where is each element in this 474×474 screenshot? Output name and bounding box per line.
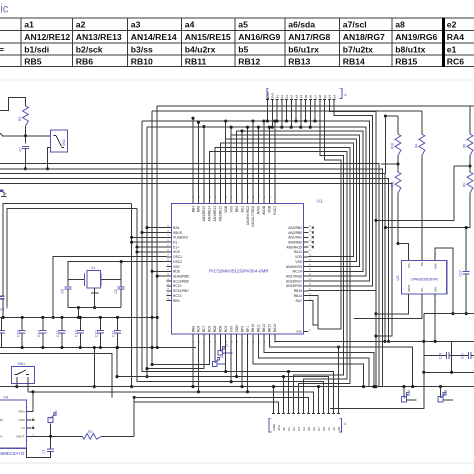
svg-text:b4/u2rx: b4/u2rx bbox=[185, 44, 216, 54]
svg-text:b6/u1rx: b6/u1rx bbox=[288, 44, 319, 54]
wire bottom pin drop 0 bbox=[224, 339, 227, 373]
wire top pin riser r6 bbox=[273, 119, 276, 198]
svg-text:b2: b2 bbox=[292, 427, 296, 431]
capacitor C6 bbox=[61, 287, 72, 308]
svg-text:a5: a5 bbox=[304, 95, 308, 99]
wire bottom pin drop RC6 bbox=[197, 339, 200, 393]
U1 left pin VDD bbox=[166, 250, 180, 254]
wire bus tap riser a bbox=[224, 119, 227, 139]
resistor R10 bbox=[391, 116, 401, 156]
wire OSC2 line and crystal frame top bbox=[68, 262, 166, 286]
wire top pin riser r3 bbox=[257, 126, 260, 199]
svg-text:OSC1: OSC1 bbox=[173, 255, 182, 259]
svg-text:VSS: VSS bbox=[295, 260, 302, 264]
wire bottom fan i14 bbox=[269, 339, 414, 388]
svg-text:U3: U3 bbox=[396, 276, 400, 281]
svg-text:AN17/RG8: AN17/RG8 bbox=[286, 275, 302, 279]
U1 right pin RA7 bbox=[296, 298, 313, 302]
wire bus left A3 bbox=[0, 174, 386, 343]
table lower separator line bbox=[0, 79, 474, 81]
svg-text:b7: b7 bbox=[317, 427, 321, 431]
svg-text:RA7: RA7 bbox=[296, 299, 303, 303]
svg-text:a8: a8 bbox=[337, 427, 341, 431]
svg-text:PD: PD bbox=[420, 262, 424, 266]
U1 top pin AN4/RE14 bbox=[208, 195, 212, 221]
svg-text:RB12: RB12 bbox=[238, 57, 260, 67]
U1 bottom pin RF0 bbox=[240, 326, 244, 343]
wire right lower pins hook 2 bbox=[309, 301, 319, 326]
wire U4 VIN+ to SW1 bbox=[31, 390, 34, 411]
svg-text:U1: U1 bbox=[317, 199, 323, 204]
svg-text:VSS: VSS bbox=[229, 205, 233, 212]
capacitor C edge bbox=[0, 317, 5, 347]
wire through line 11 bbox=[318, 103, 341, 329]
capacitor C1 bbox=[27, 436, 54, 457]
svg-text:RA4: RA4 bbox=[173, 226, 180, 230]
svg-text:e1: e1 bbox=[327, 427, 331, 431]
svg-text:VOUT-: VOUT- bbox=[16, 435, 25, 439]
svg-text:RB15: RB15 bbox=[395, 57, 417, 67]
resistor R2 bbox=[18, 106, 29, 126]
connector stub left edge bbox=[0, 190, 7, 197]
wire bus bottom 4 gnd bbox=[0, 385, 474, 388]
svg-text:C16: C16 bbox=[74, 330, 78, 337]
no-connect mark right pin 4 bbox=[312, 246, 314, 248]
wire bottom fan i11 bbox=[253, 339, 365, 388]
svg-text:S68EC0A7I3: S68EC0A7I3 bbox=[0, 451, 25, 456]
svg-text:RE9: RE9 bbox=[235, 206, 239, 213]
svg-text:a6: a6 bbox=[309, 95, 313, 99]
svg-text:RB6: RB6 bbox=[76, 57, 93, 67]
svg-text:a1: a1 bbox=[24, 20, 34, 30]
wire right lower pins hook 1 bbox=[309, 296, 319, 329]
wire vertical left v5 bbox=[151, 111, 154, 365]
svg-text:b3/ss: b3/ss bbox=[131, 44, 153, 54]
svg-text:J8: J8 bbox=[444, 389, 447, 393]
capacitor C16 bbox=[74, 316, 83, 349]
svg-text:a2: a2 bbox=[290, 95, 294, 99]
svg-text:e1: e1 bbox=[447, 44, 457, 54]
svg-text:RA4: RA4 bbox=[447, 32, 464, 42]
U1 bottom pin RB13 bbox=[268, 324, 272, 343]
jumper J1 bbox=[401, 387, 416, 402]
U1 right pin RB15 bbox=[294, 289, 312, 293]
svg-text:AVSS: AVSS bbox=[257, 205, 261, 214]
wire bottom pin hook RC8 bbox=[151, 339, 210, 366]
U1 left pin RC13 bbox=[166, 294, 181, 298]
connector J5 top bbox=[266, 88, 347, 103]
svg-text:VSS: VSS bbox=[229, 325, 233, 332]
svg-text:a5: a5 bbox=[238, 20, 248, 30]
wire cap bank top rail bbox=[0, 316, 159, 319]
wire U3 VOUT down bbox=[376, 299, 409, 314]
wire top connector drop 3 bbox=[280, 103, 283, 129]
svg-text:R11: R11 bbox=[391, 181, 395, 187]
svg-text:GND: GND bbox=[266, 91, 270, 99]
wire vertical left v6 bbox=[156, 106, 158, 347]
svg-text:C20: C20 bbox=[461, 353, 465, 359]
svg-text:e2: e2 bbox=[332, 427, 336, 431]
svg-text:a4: a4 bbox=[185, 20, 195, 30]
wire top connector drop 10 bbox=[313, 103, 316, 123]
svg-text:R8: R8 bbox=[463, 144, 467, 148]
wire to SW2 bbox=[0, 133, 50, 136]
svg-text:⊙: ⊙ bbox=[344, 422, 347, 426]
svg-text:C4: C4 bbox=[0, 308, 4, 312]
svg-text:AN12/RE12: AN12/RE12 bbox=[24, 32, 70, 42]
node R10/R11 bbox=[381, 156, 400, 173]
svg-text:P+: P+ bbox=[0, 418, 4, 422]
svg-text:SCL3/RB6: SCL3/RB6 bbox=[173, 279, 189, 283]
U1 left pin RB9 bbox=[166, 298, 179, 302]
wire gnd pin tap 2 bbox=[272, 385, 275, 411]
svg-text:AN14/RE14: AN14/RE14 bbox=[131, 32, 177, 42]
wire through line 4 bbox=[237, 131, 363, 271]
svg-text:PIC32MK0512GPK064-I/MR: PIC32MK0512GPK064-I/MR bbox=[209, 268, 269, 273]
wire through line 6 bbox=[226, 139, 357, 262]
svg-text:R2: R2 bbox=[18, 117, 22, 121]
svg-text:b3: b3 bbox=[328, 95, 332, 99]
svg-text:RC1: RC1 bbox=[240, 206, 244, 213]
svg-text:U4: U4 bbox=[4, 396, 9, 400]
U1 right pin AN6/RA15 bbox=[286, 245, 312, 249]
wire bus left A1 bbox=[0, 164, 379, 387]
svg-text:b1: b1 bbox=[280, 95, 284, 99]
wire bottom fan i12 bbox=[258, 339, 369, 387]
U1 right pin AN17/RG8 bbox=[286, 274, 312, 278]
U1 left pin RD8 bbox=[166, 269, 179, 273]
wire bottom pin drop 2 bbox=[235, 339, 238, 378]
connector J6 bottom bbox=[269, 412, 347, 432]
U1 left pin VBUS bbox=[166, 230, 182, 234]
svg-text:b8/u1tx: b8/u1tx bbox=[395, 44, 425, 54]
wire top pin riser r5 bbox=[268, 126, 271, 199]
svg-text:AN17/RG8: AN17/RG8 bbox=[288, 32, 330, 42]
U1 left pin RA4 bbox=[166, 226, 179, 230]
crystal case ground bbox=[91, 288, 99, 309]
wire right y313.6 bbox=[424, 313, 474, 315]
svg-text:b5: b5 bbox=[307, 427, 311, 431]
U1 bottom pin RF1 bbox=[246, 326, 250, 343]
svg-text:b4: b4 bbox=[332, 95, 336, 99]
wire bus bottom 5 bbox=[28, 392, 314, 412]
svg-text:AN19/RG6: AN19/RG6 bbox=[286, 284, 302, 288]
U1 top pin RA8 bbox=[197, 195, 201, 212]
wire top connector drop 9 bbox=[309, 103, 312, 129]
wire tap RA4 bbox=[145, 226, 166, 229]
U1 left pin D1- bbox=[166, 240, 178, 244]
svg-text:OA3IN+/RC2: OA3IN+/RC2 bbox=[246, 206, 250, 225]
svg-text:MCLR: MCLR bbox=[293, 270, 303, 274]
svg-text:C7: C7 bbox=[19, 147, 23, 152]
svg-text:tic: tic bbox=[0, 4, 9, 16]
svg-text:R4: R4 bbox=[414, 144, 418, 148]
svg-text:RB15: RB15 bbox=[294, 289, 302, 293]
wire nest line n1 bbox=[309, 103, 373, 286]
U1 bottom pin RB10 bbox=[251, 324, 255, 343]
svg-text:b4: b4 bbox=[302, 427, 306, 431]
svg-text:RF1: RF1 bbox=[246, 326, 250, 332]
U1 right pin AN18/RG7 bbox=[286, 279, 312, 283]
svg-text:SW1: SW1 bbox=[18, 362, 25, 366]
svg-text:a3: a3 bbox=[294, 95, 298, 99]
svg-text:b1: b1 bbox=[287, 427, 291, 431]
capacitor C19 bbox=[424, 352, 452, 359]
capacitor C15 bbox=[56, 316, 65, 349]
svg-text:C11: C11 bbox=[112, 331, 116, 337]
U1 left pin SDA3/RB5 bbox=[166, 274, 189, 278]
wire top pin riser r2 bbox=[251, 119, 254, 198]
svg-text:SDA3/RB5: SDA3/RB5 bbox=[173, 275, 189, 279]
svg-text:AN16/RG9: AN16/RG9 bbox=[238, 32, 280, 42]
svg-text:b7/u2tx: b7/u2tx bbox=[343, 44, 373, 54]
svg-text:AN1/RA1: AN1/RA1 bbox=[288, 236, 302, 240]
svg-text:OA3OUT/RC8: OA3OUT/RC8 bbox=[251, 206, 255, 227]
svg-text:J1: J1 bbox=[407, 389, 410, 393]
U1 right pin AN0/RA0 bbox=[288, 240, 312, 244]
wire right corner down bbox=[330, 372, 424, 408]
jumper J4 bbox=[438, 387, 453, 402]
U1 bottom pin RC8 bbox=[208, 325, 212, 343]
svg-text:VDD: VDD bbox=[295, 255, 303, 259]
svg-text:RA8: RA8 bbox=[197, 206, 201, 213]
svg-text:VDD: VDD bbox=[224, 205, 228, 213]
svg-text:a4: a4 bbox=[299, 95, 303, 99]
svg-text:RB10: RB10 bbox=[131, 57, 153, 67]
svg-text:SW2: SW2 bbox=[62, 139, 66, 146]
capacitor C12 bbox=[95, 316, 104, 349]
svg-text:b1/sdi: b1/sdi bbox=[24, 44, 49, 54]
U1 top pin VSS bbox=[229, 195, 233, 212]
test point T1 bbox=[218, 339, 233, 355]
svg-text:RC8: RC8 bbox=[208, 325, 212, 332]
svg-text:R3: R3 bbox=[88, 430, 92, 434]
U1 left pin D1+ bbox=[166, 245, 179, 249]
no-connect mark right pin 3 bbox=[312, 241, 314, 243]
svg-text:AN2/RB0: AN2/RB0 bbox=[288, 231, 302, 235]
wire top connector drop 1 bbox=[271, 103, 274, 129]
wire bus left A4 bbox=[0, 179, 390, 343]
caption text fragment "tic" bbox=[0, 4, 9, 16]
wire top connector drop 4 bbox=[285, 103, 288, 123]
wire bus bottom 2 full bbox=[117, 377, 329, 412]
wire top pin tap 1 bbox=[197, 121, 200, 199]
U1 right pin AN2/RB0 bbox=[288, 230, 312, 234]
svg-text:R10: R10 bbox=[391, 143, 395, 149]
svg-text:VOUT: VOUT bbox=[407, 284, 411, 292]
wire bus left B2 usb bbox=[7, 209, 137, 306]
wire bottom pin drop 1 bbox=[230, 339, 233, 383]
wire through line 8 bbox=[215, 147, 350, 411]
wire bus bottom 3 bbox=[137, 381, 324, 383]
svg-text:RB8: RB8 bbox=[191, 326, 195, 333]
svg-text:RF0: RF0 bbox=[240, 326, 244, 332]
microcontroller U1 PIC32MK0512GPK064 bbox=[171, 199, 323, 335]
svg-text:C5: C5 bbox=[114, 289, 118, 294]
svg-text:AN18/RG7: AN18/RG7 bbox=[286, 279, 302, 283]
wire resistor feed y116 bbox=[384, 114, 398, 173]
U1 right pin AN19/RG6 bbox=[286, 284, 312, 288]
wire OSC1 line bbox=[52, 257, 167, 319]
wire gnd pin tap bbox=[317, 385, 320, 411]
svg-text:C17: C17 bbox=[458, 270, 462, 276]
wire top connector drop 0 bbox=[266, 103, 269, 123]
svg-text:AN19/RG6: AN19/RG6 bbox=[395, 32, 437, 42]
svg-text:AN4/RE14: AN4/RE14 bbox=[208, 206, 212, 222]
svg-text:RD8: RD8 bbox=[173, 270, 180, 274]
svg-text:a7/scl: a7/scl bbox=[343, 20, 367, 30]
svg-text:RB9: RB9 bbox=[173, 299, 180, 303]
wire tap SDA3 bbox=[156, 275, 167, 278]
wire tap RD8 bbox=[151, 270, 167, 273]
svg-text:VS-: VS- bbox=[420, 287, 424, 292]
svg-text:SCK1/RB7: SCK1/RB7 bbox=[173, 289, 189, 293]
svg-text:RC7: RC7 bbox=[202, 325, 206, 332]
wire bottom pin drop RB13 bbox=[246, 339, 249, 393]
svg-text:⊙: ⊙ bbox=[344, 93, 347, 97]
wire SW1 left lead bbox=[15, 377, 18, 388]
U1 bottom pin RD5 bbox=[213, 325, 217, 343]
wire vertical left v2 bbox=[145, 127, 148, 378]
wire bus line y127 bbox=[147, 127, 366, 276]
wire U3 VS+ up bbox=[398, 244, 409, 256]
svg-text:a6/sda: a6/sda bbox=[288, 20, 315, 30]
capacitor C14 bbox=[37, 316, 46, 349]
U1 left pin SCK1/RB7 bbox=[166, 289, 189, 293]
wire top pin riser r4 bbox=[262, 119, 265, 198]
svg-text:C14: C14 bbox=[37, 330, 41, 337]
svg-text:RC6: RC6 bbox=[197, 325, 201, 332]
svg-text:AN13/RE13: AN13/RE13 bbox=[76, 32, 122, 42]
U1 top pin AVSS bbox=[257, 195, 261, 214]
U1 bottom pin RA10 bbox=[273, 324, 277, 343]
svg-text:RC6: RC6 bbox=[447, 57, 464, 67]
svg-text:OSC2: OSC2 bbox=[173, 260, 182, 264]
wire vertical left v3 bbox=[137, 209, 324, 412]
capacitor C7 bbox=[19, 146, 29, 168]
capacitor left edge C (cut) bbox=[0, 296, 7, 319]
wire through line 9 bbox=[209, 151, 346, 411]
U1 left pin RC10 bbox=[166, 284, 181, 288]
wire tap D1+ bbox=[135, 245, 166, 248]
svg-text:X1: X1 bbox=[91, 266, 95, 270]
no-connect mark right pin 2 bbox=[312, 236, 314, 238]
resistor R8 bbox=[454, 106, 473, 172]
U1 bottom pin RC6 bbox=[197, 325, 201, 343]
svg-text:AN0/RA0: AN0/RA0 bbox=[288, 240, 302, 244]
wire top-left step bbox=[0, 97, 26, 110]
U1 top pin OA3OUT/RC8 bbox=[251, 195, 255, 227]
svg-text:VUSB3V3: VUSB3V3 bbox=[173, 236, 188, 240]
svg-text:a7: a7 bbox=[313, 95, 317, 99]
svg-text:RD6: RD6 bbox=[219, 325, 223, 332]
wire U4 VOUT line bbox=[32, 435, 83, 438]
crystal X1 bbox=[68, 266, 121, 288]
svg-text:VS+: VS+ bbox=[407, 262, 411, 268]
svg-text:RB13: RB13 bbox=[268, 324, 272, 332]
svg-text:b2: b2 bbox=[323, 95, 327, 99]
svg-text:VBUS: VBUS bbox=[173, 231, 183, 235]
wire tap VDD bbox=[135, 250, 166, 253]
svg-text:D1+: D1+ bbox=[173, 245, 179, 249]
wire bus bottom 1 bbox=[147, 371, 334, 373]
svg-text:AN6/RA15: AN6/RA15 bbox=[286, 245, 302, 249]
wire SW1 area line y353 bbox=[0, 353, 136, 399]
svg-text:AN3/RE13: AN3/RE13 bbox=[213, 206, 217, 222]
wire pin feed 338 bbox=[337, 345, 340, 411]
wire tap D1- bbox=[130, 241, 166, 244]
svg-text:C1: C1 bbox=[42, 449, 46, 453]
svg-text:a3: a3 bbox=[131, 20, 141, 30]
wire SW2 lower lead bbox=[48, 148, 51, 169]
wire tap VUSB3V3 bbox=[130, 236, 166, 239]
svg-text:a8: a8 bbox=[318, 95, 322, 99]
svg-text:a8: a8 bbox=[395, 20, 405, 30]
test point T2 bbox=[213, 339, 227, 366]
U1 right pin AN16/RG9 bbox=[286, 264, 312, 268]
wire bus bottom 7 bbox=[134, 402, 278, 412]
U1 bottom pin RC9 bbox=[224, 325, 228, 343]
wire crystal frame right bbox=[120, 260, 123, 286]
svg-text:AN18/RG7: AN18/RG7 bbox=[343, 32, 385, 42]
wire through line 5 bbox=[231, 135, 360, 267]
capacitor C13 bbox=[16, 316, 25, 349]
svg-text:AVDD: AVDD bbox=[262, 205, 266, 215]
svg-text:RA10: RA10 bbox=[273, 324, 277, 332]
svg-text:RB4: RB4 bbox=[191, 206, 195, 213]
U1 top pin AN2/RE12 bbox=[219, 195, 223, 221]
wire bus line y121 bbox=[142, 121, 369, 281]
svg-text:V-: V- bbox=[0, 435, 3, 439]
svg-text:RB11: RB11 bbox=[185, 57, 207, 67]
resistor R11 bbox=[391, 172, 401, 245]
resistor R3 bbox=[82, 430, 134, 439]
svg-text:3V3: 3V3 bbox=[277, 425, 281, 431]
op-amp U3 OPA8635DBVR bbox=[396, 253, 447, 303]
U1 bottom pin RD6 bbox=[219, 325, 223, 343]
U1 bottom pin RB11 bbox=[257, 324, 261, 343]
U1 left pin OSC1 bbox=[166, 255, 182, 259]
wire gnd rail tap a bbox=[93, 346, 96, 388]
svg-text:RB13: RB13 bbox=[288, 57, 310, 67]
wire C19 C20 rails bbox=[422, 314, 474, 374]
U1 left pin OSC2 bbox=[166, 260, 182, 264]
wire top connector drop 5 bbox=[290, 103, 293, 129]
svg-text:RD5: RD5 bbox=[213, 325, 217, 332]
U1 right pin AN1/RA1 bbox=[288, 235, 312, 239]
wire bottom pin drop RB8a bbox=[191, 339, 194, 388]
wire U3 VS- down bbox=[353, 299, 422, 318]
svg-text:VDD: VDD bbox=[173, 250, 181, 254]
svg-text:RB10: RB10 bbox=[251, 324, 255, 332]
U1 top pin RE9 bbox=[235, 195, 239, 212]
U1 left pin VSS bbox=[166, 264, 180, 268]
svg-text:b5: b5 bbox=[238, 44, 248, 54]
svg-text:RA12: RA12 bbox=[294, 250, 302, 254]
resistor R9 bbox=[463, 172, 473, 193]
svg-text:b6: b6 bbox=[312, 427, 316, 431]
U1 left pin VUSB3V3 bbox=[166, 235, 188, 239]
wire SW1 right lead bbox=[27, 377, 29, 392]
svg-text:C19: C19 bbox=[439, 353, 443, 359]
svg-text:C12: C12 bbox=[95, 330, 99, 337]
wire riser extension x375.9 bbox=[374, 291, 377, 388]
svg-text:RC13: RC13 bbox=[173, 294, 182, 298]
wire bus bottom 2 bbox=[142, 376, 329, 378]
svg-text:=: = bbox=[0, 44, 4, 54]
capacitor C11 bbox=[112, 316, 121, 349]
wire bus tap riser b bbox=[230, 126, 233, 135]
